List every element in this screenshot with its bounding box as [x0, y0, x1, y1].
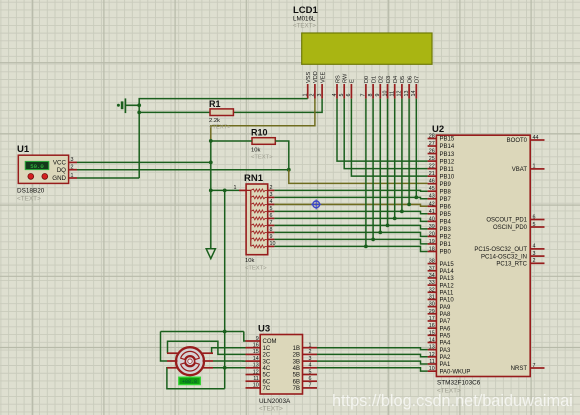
- svg-text:+88.8: +88.8: [182, 379, 197, 385]
- junction RN1 pin1 row: [209, 189, 213, 193]
- junction R10 left: [209, 139, 213, 143]
- svg-text:<TEXT>: <TEXT>: [251, 155, 273, 161]
- U2 pin 46 PB9: [428, 179, 452, 188]
- U2 pin 19 PB1: [428, 239, 452, 248]
- U1 pin 2 DQ: [57, 165, 77, 174]
- svg-text:6: 6: [309, 376, 312, 382]
- U2 pin 20 PB2: [428, 231, 452, 240]
- RN1 pin 1 stub: [234, 185, 247, 191]
- svg-text:4: 4: [270, 199, 273, 205]
- svg-text:9: 9: [256, 336, 259, 342]
- svg-text:DQ: DQ: [57, 167, 66, 174]
- svg-text:<TEXT>: <TEXT>: [17, 196, 41, 203]
- svg-text:15: 15: [253, 349, 259, 355]
- svg-text:3: 3: [309, 356, 312, 362]
- svg-text:13: 13: [253, 363, 259, 369]
- svg-text:43: 43: [429, 194, 435, 200]
- svg-text:38: 38: [429, 259, 435, 265]
- svg-text:2: 2: [533, 258, 536, 264]
- wire U1 GND to power vertical: [77, 177, 139, 179]
- U2 pin 40 PB4: [428, 216, 452, 225]
- RN1 resistor element 6: [251, 224, 268, 227]
- U2 pin 2 PC13_RTC: [496, 258, 544, 267]
- wire motor right-low to 4C: [213, 367, 246, 369]
- junction R1 branch: [137, 111, 141, 115]
- svg-text:1: 1: [71, 173, 74, 179]
- svg-text:PA9: PA9: [440, 305, 452, 311]
- svg-text:9: 9: [375, 94, 381, 97]
- U2 pin 13 PA3: [428, 345, 451, 354]
- RN1 resistor element 4: [251, 210, 268, 213]
- U2 pin 7 NRST: [511, 363, 545, 372]
- svg-text:OSCIN_PD0: OSCIN_PD0: [493, 225, 528, 231]
- RN1 pin 5 stub: [268, 206, 275, 212]
- svg-text:U1: U1: [17, 144, 30, 155]
- U2 pin 42 PB6: [428, 201, 452, 210]
- LCD1 pin 9 D2: [375, 76, 385, 99]
- svg-text:13: 13: [404, 91, 410, 97]
- U1 pin 3 VCC: [53, 157, 77, 166]
- LCD1 pin 6 E: [346, 79, 356, 99]
- svg-text:4B: 4B: [293, 366, 300, 372]
- RN1 resistor element 3: [251, 203, 268, 206]
- svg-text:ULN2003A: ULN2003A: [259, 398, 291, 405]
- wire node A to motor rail vertical: [224, 190, 226, 331]
- svg-text:PA2: PA2: [440, 355, 452, 361]
- svg-text:12: 12: [429, 352, 435, 358]
- wire motor rail2: [168, 341, 246, 354]
- motor speed display: [179, 377, 201, 385]
- svg-text:D0: D0: [364, 76, 370, 83]
- svg-text:PB0: PB0: [440, 250, 452, 256]
- U3 pin 11 6C: [246, 376, 271, 385]
- wire RS to PB12: [337, 99, 428, 161]
- wire U3 3B to U2 PA1: [317, 361, 428, 364]
- RN1 pin 9 stub: [268, 234, 275, 240]
- junction D2 on row: [378, 231, 382, 235]
- svg-text:PC13_RTC: PC13_RTC: [496, 262, 527, 268]
- svg-text:6C: 6C: [263, 379, 271, 385]
- U2 pin 12 PA2: [428, 352, 451, 361]
- U3 pin 9 COM: [246, 336, 277, 345]
- svg-text:1: 1: [303, 94, 309, 97]
- wire RW to PB11: [344, 99, 427, 169]
- svg-text:2C: 2C: [263, 353, 271, 359]
- svg-text:37: 37: [429, 266, 435, 272]
- svg-text:19: 19: [429, 239, 435, 245]
- wire RN1 pin2 row to U2 PB8: [274, 189, 427, 192]
- resistor R10 body: [252, 138, 275, 145]
- svg-text:3: 3: [71, 157, 74, 163]
- svg-text:D5: D5: [400, 76, 406, 83]
- LCD1 pin 13 D6: [404, 76, 414, 99]
- svg-text:42: 42: [429, 201, 435, 207]
- wire rail left to motor left-middle pin: [161, 332, 168, 362]
- svg-text:https://blog.csdn.net/baiduwai: https://blog.csdn.net/baiduwaimai: [332, 392, 573, 410]
- U2 pin 33 PA12: [428, 280, 455, 289]
- svg-text:11: 11: [253, 376, 259, 382]
- RN1 pin 6 stub: [268, 213, 275, 219]
- junction D0 on row: [364, 245, 368, 249]
- wire R10 left: [211, 140, 252, 142]
- svg-text:PA6: PA6: [440, 326, 452, 332]
- svg-text:7: 7: [270, 220, 273, 226]
- svg-text:PA7: PA7: [440, 319, 452, 325]
- svg-text:27: 27: [429, 141, 435, 147]
- U2 pin 38 PA15: [428, 259, 455, 268]
- U2 pin 11 PA1: [428, 359, 451, 368]
- svg-text:2: 2: [270, 185, 273, 191]
- svg-text:OSCOUT_PD1: OSCOUT_PD1: [486, 218, 527, 224]
- RN1 pin 10 stub: [268, 241, 276, 247]
- U1 indicator dot 2: [42, 174, 48, 180]
- svg-text:PB8: PB8: [440, 189, 452, 195]
- svg-text:E: E: [350, 79, 356, 83]
- RN1 resistor element 8: [251, 238, 268, 241]
- svg-text:PB13: PB13: [440, 152, 455, 158]
- svg-text:8: 8: [368, 94, 374, 97]
- U2 pin 45 PB8: [428, 186, 452, 195]
- svg-text:PA8: PA8: [440, 312, 452, 318]
- U2 pin 43 PB7: [428, 194, 452, 203]
- power terminal: [117, 98, 139, 113]
- svg-text:VEE: VEE: [320, 72, 326, 83]
- LCD1 pin 10 D3: [382, 76, 392, 99]
- U1 pin 1 GND: [52, 173, 77, 182]
- LCD1 pin 12 D5: [397, 76, 407, 99]
- svg-text:PB1: PB1: [440, 242, 452, 248]
- svg-text:PB11: PB11: [440, 167, 455, 173]
- U2 pin 32 PA11: [428, 287, 454, 296]
- svg-text:PB6: PB6: [440, 204, 452, 210]
- svg-text:14: 14: [429, 337, 435, 343]
- RN1 pin 4 stub: [268, 199, 275, 205]
- svg-text:7B: 7B: [293, 386, 300, 392]
- LCD1 pin 3 VEE: [317, 72, 327, 99]
- svg-text:10: 10: [253, 383, 259, 389]
- svg-text:<TEXT>: <TEXT>: [259, 406, 283, 413]
- svg-text:3B: 3B: [293, 359, 300, 365]
- LCD1 pin 7 D0: [361, 76, 371, 99]
- svg-text:44: 44: [533, 135, 539, 141]
- svg-text:29: 29: [429, 309, 435, 315]
- junction D5 on row: [400, 210, 404, 214]
- wire LCD D0 vertical: [365, 99, 367, 247]
- wire LCD D7 vertical: [415, 99, 417, 198]
- RN1 resistor element 1: [251, 189, 268, 192]
- svg-text:1: 1: [309, 343, 312, 349]
- svg-text:6: 6: [270, 213, 273, 219]
- U2 pin 29 PA8: [428, 309, 451, 318]
- U2 pin 26 PB13: [428, 149, 455, 158]
- svg-text:D6: D6: [407, 76, 413, 83]
- wire LCD D5 vertical: [401, 99, 403, 212]
- wire RN1 pin1 to node A: [211, 189, 239, 191]
- U2 pin 41 PB5: [428, 209, 452, 218]
- wire U1 DQ row: [77, 169, 289, 171]
- svg-text:7: 7: [361, 94, 367, 97]
- svg-text:5: 5: [533, 222, 536, 228]
- svg-text:U3: U3: [258, 324, 270, 335]
- svg-text:12: 12: [253, 369, 259, 375]
- U2 pin 44 BOOT0: [507, 135, 545, 144]
- wire motor vertical to bottom rail: [224, 332, 226, 389]
- svg-text:18: 18: [429, 246, 435, 252]
- svg-text:16: 16: [429, 323, 435, 329]
- svg-text:10: 10: [429, 366, 435, 372]
- junction D1 on row: [371, 238, 375, 242]
- svg-text:14: 14: [253, 356, 259, 362]
- motor left pin y=353.2: [167, 352, 178, 354]
- U2 pin 28 PB15: [428, 134, 455, 143]
- U2 pin 15 PA5: [428, 330, 451, 339]
- wire R10 right down to DQ node: [275, 141, 289, 170]
- svg-text:2: 2: [310, 94, 316, 97]
- wire RN1 pin9 row to U2 PB1: [274, 239, 427, 244]
- svg-text:PB14: PB14: [440, 144, 455, 150]
- svg-text:6B: 6B: [293, 379, 300, 385]
- U3 pin 14 3C: [246, 356, 271, 365]
- wire E to PB10: [351, 99, 427, 177]
- svg-text:20: 20: [429, 231, 435, 237]
- U3 pin 10 7C: [246, 383, 271, 392]
- U2 pin 39 PB3: [428, 224, 452, 233]
- RN1 pin 8 stub: [268, 227, 275, 233]
- wire R1 right to LCD VEE: [233, 99, 322, 113]
- U3 pin 3 3B: [293, 356, 317, 365]
- wire RN1 pin4 row to U2 PB6: [274, 204, 427, 206]
- svg-text:21: 21: [429, 171, 435, 177]
- wire U1 VCC row: [77, 161, 211, 163]
- svg-text:26: 26: [429, 149, 435, 155]
- U2 pin 14 PA4: [428, 337, 451, 346]
- svg-text:5: 5: [339, 94, 345, 97]
- LCD1 pin 4 RS: [332, 75, 342, 99]
- wire RN1 pin6 row to U2 PB4: [274, 218, 427, 221]
- svg-text:<TEXT>: <TEXT>: [293, 23, 316, 30]
- svg-text:6: 6: [533, 214, 536, 220]
- svg-text:14: 14: [411, 91, 417, 97]
- svg-text:PB12: PB12: [440, 159, 455, 165]
- wire RN1 pin8 row to U2 PB2: [274, 232, 427, 236]
- U3 pin 7 7B: [293, 383, 317, 392]
- origin marker: [311, 199, 321, 209]
- svg-text:13: 13: [429, 345, 435, 351]
- svg-text:4C: 4C: [263, 366, 271, 372]
- stepper motor body: [176, 347, 204, 375]
- svg-text:PA11: PA11: [440, 290, 454, 296]
- svg-text:3: 3: [270, 192, 273, 198]
- svg-text:15: 15: [429, 330, 435, 336]
- wire RN1 pin3 row to U2 PB7: [274, 197, 427, 198]
- svg-text:11: 11: [429, 359, 435, 365]
- svg-text:PC14-OSC32_IN: PC14-OSC32_IN: [481, 254, 527, 260]
- svg-text:25: 25: [429, 156, 435, 162]
- RN1 internal common bus: [246, 190, 251, 246]
- svg-text:7C: 7C: [263, 386, 271, 392]
- U3 pin 5 5B: [293, 369, 317, 378]
- svg-text:3: 3: [533, 251, 536, 257]
- U2 pin 37 PA14: [428, 266, 455, 275]
- svg-text:39: 39: [429, 224, 435, 230]
- svg-text:31: 31: [429, 294, 435, 300]
- svg-text:VSS: VSS: [306, 72, 312, 83]
- U3 pin 15 2C: [246, 349, 271, 358]
- U3 pin 4 4B: [293, 363, 317, 372]
- U2 pin 10 PA0-WKUP: [428, 366, 471, 375]
- svg-text:PB7: PB7: [440, 197, 452, 203]
- driver U3 body: [260, 335, 302, 395]
- microcontroller U2 body: [436, 135, 530, 376]
- svg-text:46: 46: [429, 179, 435, 185]
- motor left pin y=367.8: [167, 367, 178, 369]
- svg-text:PB3: PB3: [440, 227, 452, 233]
- wire LCD D6 vertical: [408, 99, 410, 205]
- junction D3 on row: [386, 224, 390, 228]
- U2 pin 22 PB11: [428, 164, 455, 173]
- ground terminal arrow: [206, 249, 215, 259]
- motor right pin y=353.2: [203, 352, 214, 354]
- svg-text:PB2: PB2: [440, 235, 452, 241]
- svg-text:2B: 2B: [293, 353, 300, 359]
- wire DQ to PB9 (olive): [289, 170, 428, 184]
- svg-text:40: 40: [429, 216, 435, 222]
- svg-text:8: 8: [270, 227, 273, 233]
- svg-text:VDD: VDD: [313, 71, 319, 83]
- svg-text:30: 30: [429, 302, 435, 308]
- motor right pin y=367.8: [203, 367, 214, 369]
- motor left pin y=361.0: [167, 360, 178, 362]
- svg-text:50.0: 50.0: [30, 163, 44, 170]
- wire motor top rail: [161, 331, 244, 333]
- U1 indicator dot 1: [28, 174, 34, 180]
- svg-text:NRST: NRST: [511, 366, 528, 372]
- RN1 pin 3 stub: [268, 192, 275, 198]
- LCD1 pin 2 VDD: [310, 71, 320, 98]
- LCD1 pin 14 D7: [411, 76, 421, 99]
- svg-text:R1: R1: [209, 99, 221, 109]
- wire motor bottom rail: [167, 368, 225, 389]
- svg-text:RN1: RN1: [244, 173, 264, 184]
- svg-text:PA14: PA14: [440, 269, 455, 275]
- junction motor 4C row: [223, 366, 227, 370]
- svg-text:3C: 3C: [263, 359, 271, 365]
- svg-text:PB5: PB5: [440, 212, 452, 218]
- svg-text:10k: 10k: [245, 258, 254, 264]
- svg-text:D7: D7: [415, 76, 421, 83]
- wire R1 left: [139, 111, 210, 113]
- U3 pin 2 2B: [293, 349, 317, 358]
- junction D7 on row: [414, 196, 418, 200]
- junction DQ / R10: [287, 168, 291, 172]
- U2 pin 3 PC14-OSC32_IN: [481, 251, 545, 260]
- wire U3 2B to U2 PA2: [317, 354, 428, 356]
- svg-text:12: 12: [397, 91, 403, 97]
- svg-text:D2: D2: [379, 76, 385, 83]
- wire U3 4B to U2 PA0: [317, 368, 428, 371]
- wire LCD D3 vertical: [387, 99, 389, 226]
- U3 pin 13 4C: [246, 363, 271, 372]
- U2 pin 27 PB14: [428, 141, 455, 150]
- svg-text:2: 2: [71, 165, 74, 171]
- svg-text:10k: 10k: [251, 148, 260, 154]
- wire RN1 pin10 row to U2 PB0: [274, 246, 427, 251]
- svg-text:COM: COM: [263, 339, 277, 345]
- svg-text:PA5: PA5: [440, 334, 452, 340]
- wire VSS net: LCD pin1 left to power vertical: [139, 99, 308, 178]
- svg-text:41: 41: [429, 209, 435, 215]
- U2 pin 25 PB12: [428, 156, 455, 165]
- svg-text:PC15-OSC32_OUT: PC15-OSC32_OUT: [474, 247, 527, 253]
- LCD1 pin 8 D1: [368, 76, 378, 99]
- svg-text:<TEXT>: <TEXT>: [209, 125, 231, 131]
- RN1 pin 7 stub: [268, 220, 275, 226]
- U2 pin 1 VBAT: [512, 164, 545, 173]
- svg-text:5: 5: [270, 206, 273, 212]
- junction D6 on row: [407, 203, 411, 207]
- U2 pin 21 PB10: [428, 171, 455, 180]
- wire RN1 pin5 row to U2 PB5: [274, 211, 427, 213]
- svg-text:RW: RW: [343, 73, 349, 83]
- svg-text:PA15: PA15: [440, 262, 455, 268]
- U3 pin 1 1B: [293, 343, 317, 352]
- wire U3 1B to U2 PA3: [317, 348, 428, 350]
- svg-text:5: 5: [309, 369, 312, 375]
- LCD1 pin 5 RW: [339, 73, 349, 99]
- wire LCD D2 vertical: [379, 99, 381, 233]
- svg-text:D3: D3: [386, 76, 392, 83]
- junction power terminal: [137, 103, 141, 107]
- junction vertical to motor rail: [223, 189, 227, 193]
- svg-text:D1: D1: [371, 76, 377, 83]
- svg-text:45: 45: [429, 186, 435, 192]
- RN1 pin 2 stub: [268, 185, 275, 191]
- RN1 resistor element 5: [251, 217, 268, 220]
- U2 pin 5 OSCIN_PD0: [493, 222, 545, 231]
- junction VCC row: [209, 161, 213, 165]
- resistor R1 body: [210, 109, 233, 116]
- svg-text:1C: 1C: [263, 346, 271, 352]
- U3 pin 6 6B: [293, 376, 317, 385]
- svg-text:5B: 5B: [293, 373, 300, 379]
- svg-text:PB10: PB10: [440, 174, 455, 180]
- RN1 resistor element 9: [251, 245, 268, 248]
- U2 pin 18 PB0: [428, 246, 452, 255]
- svg-text:1B: 1B: [293, 346, 300, 352]
- svg-text:R10: R10: [251, 128, 268, 138]
- svg-text:PB4: PB4: [440, 220, 452, 226]
- svg-text:32: 32: [429, 287, 435, 293]
- svg-text:BOOT0: BOOT0: [507, 138, 528, 144]
- LCD LCD1 body: [302, 33, 432, 64]
- U2 pin 34 PA13: [428, 273, 455, 282]
- svg-text:GND: GND: [52, 175, 66, 182]
- motor right pin y=361.0: [203, 360, 214, 362]
- svg-text:2: 2: [309, 349, 312, 355]
- svg-text:22: 22: [429, 164, 435, 170]
- svg-text:16: 16: [253, 343, 259, 349]
- svg-text:2.2k: 2.2k: [209, 118, 220, 124]
- svg-text:7: 7: [309, 383, 312, 389]
- svg-text:3: 3: [317, 94, 323, 97]
- wire LCD D4 vertical: [394, 99, 396, 219]
- svg-text:33: 33: [429, 280, 435, 286]
- svg-text:VCC: VCC: [53, 160, 67, 167]
- U2 pin 6 OSCOUT_PD1: [486, 214, 544, 223]
- wire LCD D1 vertical: [372, 99, 374, 240]
- U2 pin 30 PA9: [428, 302, 451, 311]
- svg-text:VBAT: VBAT: [512, 167, 528, 173]
